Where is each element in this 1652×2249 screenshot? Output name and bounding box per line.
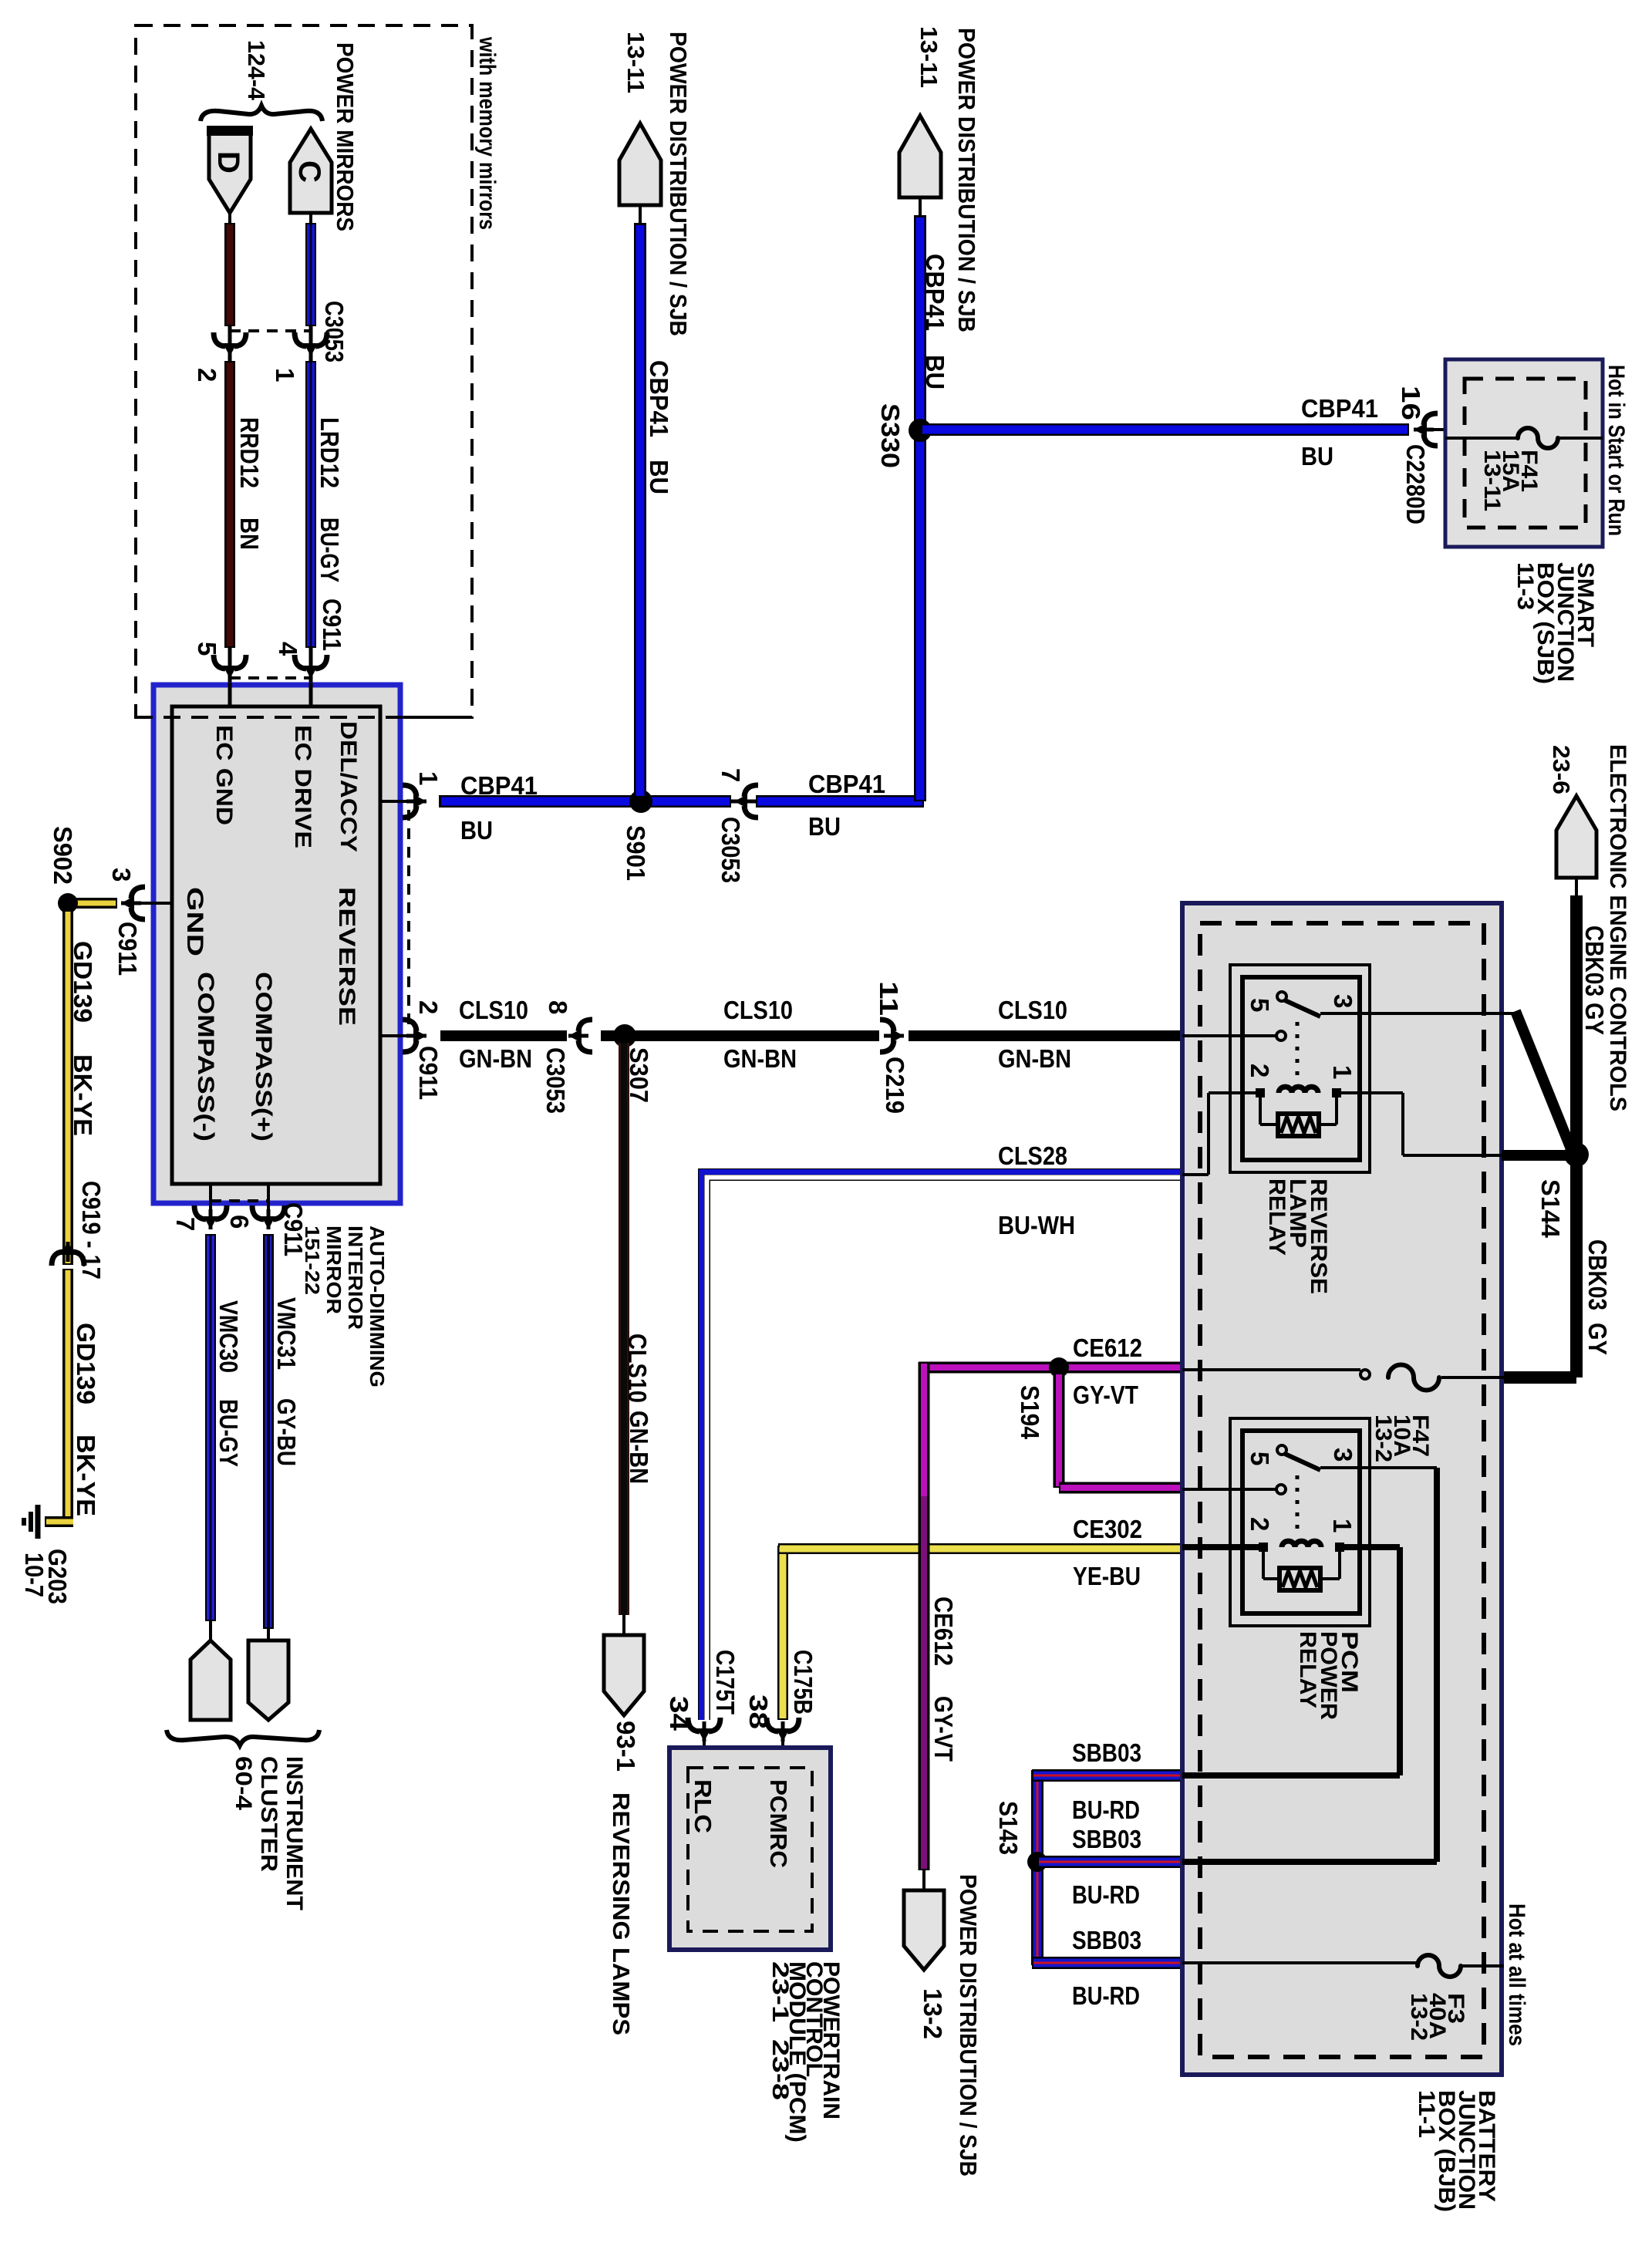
SJB inner dashed box [1465,379,1586,528]
brace 124-4 over connectors D and C [201,106,322,121]
connector: instrument cluster (pin VMC31) [248,1640,288,1720]
component box: POWERTRAIN CONTROL MODULE (PCM) [669,1748,831,1950]
svg-text:GY-VT: GY-VT [1073,1381,1138,1409]
relay 1 coil line left (CLS28 path) [1207,1093,1210,1175]
svg-text:C911: C911 [113,922,142,976]
svg-text:INSTRUMENT: INSTRUMENT [282,1756,307,1910]
svg-text:10-7: 10-7 [20,1553,49,1597]
svg-text:EC DRIVE: EC DRIVE [290,725,315,848]
svg-text:BK-YE: BK-YE [72,1435,100,1516]
svg-text:C919 - 17: C919 - 17 [77,1181,106,1280]
svg-text:BU: BU [921,355,949,389]
connector C2280D pin 16 arrow [1424,413,1438,425]
svg-text:COMPASS(-): COMPASS(-) [193,972,218,1141]
wire CLS10 GN-BN vertical (S307 down) [619,1043,629,1615]
wire: lead into PCM [703,1742,706,1769]
svg-text:BU-GY: BU-GY [315,518,344,582]
wire: lead [639,205,642,225]
svg-text:C3053: C3053 [541,1047,570,1114]
svg-text:13-11: 13-11 [1479,450,1505,511]
svg-text:4: 4 [274,642,302,656]
relay 1 pin 3 line to S144 diagonal [1320,1012,1518,1015]
relay 2 blade [1285,1454,1320,1470]
connector C911 pin 2 arrow [403,1020,416,1031]
svg-text:BK-YE: BK-YE [69,1054,97,1136]
svg-text:VMC31: VMC31 [272,1297,301,1370]
dashed option box: with memory mirrors [136,25,472,717]
relay: REVERSE LAMP RELAY outer box [1230,965,1370,1172]
relay 2 pin 5 line (CE612 branch) [1182,1488,1276,1491]
svg-text:C3053: C3053 [716,817,745,883]
wire VMC31 GY-BU vertical [263,1234,274,1629]
wire: mirror pin 1 lead [380,800,426,803]
svg-text:BU: BU [808,812,841,841]
relay 2 coil [1259,1543,1268,1552]
wire GD139 BK-YE vertical segment 2 [62,1269,73,1526]
relay 1 coil line right [1337,1091,1403,1094]
relay 2 coil right to SBB03 run1 [1340,1544,1400,1550]
svg-text:11: 11 [875,981,903,1016]
svg-text:C219: C219 [881,1057,909,1114]
wire: lead [919,197,922,217]
connector C911 pin 6 arrow [252,1205,264,1219]
connector C911 pin 1 arrow [403,785,416,797]
connector C3053 dashed link [230,329,311,332]
relay inner box [1242,977,1360,1160]
relay 1 blade [1285,1000,1320,1017]
relay 2 pin 3 line [1320,1466,1437,1469]
relay: PCM POWER RELAY outer box [1230,1418,1370,1626]
connector: POWER DISTRIBUTION / SJB (13-2) [904,1890,944,1970]
relay 1 pin 1 feed thick segment [1502,1150,1578,1161]
wire: lead from connector C [309,213,312,225]
connector C3053 pin 1 arrow [295,332,306,346]
svg-text:GY: GY [1580,1003,1609,1035]
relay 2 resistor legs [1262,1552,1265,1579]
svg-text:CBK03: CBK03 [1583,1239,1612,1310]
svg-text:GY: GY [1583,1323,1612,1355]
svg-text:CE612: CE612 [1073,1334,1142,1362]
wire CE612 GY-VT horizontal (corner to BJB) [919,1362,1182,1374]
svg-text:7: 7 [716,768,745,782]
svg-text:POWER DISTRIBUTION / SJB: POWER DISTRIBUTION / SJB [665,32,692,336]
svg-text:with memory mirrors: with memory mirrors [474,36,500,230]
svg-text:SBB03: SBB03 [1072,1926,1141,1954]
svg-text:S143: S143 [994,1801,1023,1855]
splice S144 [1564,1142,1589,1167]
wire CBP41 BU vertical (right feed through S330) [914,215,926,801]
svg-text:D: D [211,151,245,174]
svg-text:GN-BN: GN-BN [625,1411,653,1484]
wire CBK03 to fuse F47 (turn) [1504,1371,1576,1384]
component box: BATTERY JUNCTION BOX (BJB) [1182,903,1502,2075]
wire LRD12 BU-GY segment 2 (blue) [305,361,316,648]
F47 terminal circle [1360,1370,1370,1379]
svg-text:RELAY: RELAY [1295,1631,1320,1708]
dashed link C911 pins 1-2 [407,810,410,1030]
svg-text:CBP41: CBP41 [921,254,949,331]
wire: lead to connector [922,1870,925,1893]
svg-text:23-1 23-8: 23-1 23-8 [767,1961,793,2100]
svg-text:13-2: 13-2 [919,1988,947,2039]
svg-text:3: 3 [1329,994,1357,1008]
svg-text:GD139: GD139 [72,1323,100,1404]
svg-text:REVERSE: REVERSE [334,887,359,1026]
connector C175T pin 34 arrow [688,1718,700,1731]
svg-text:1: 1 [414,771,443,785]
relay 2 inner box [1242,1431,1360,1613]
svg-text:C911: C911 [279,1202,308,1256]
svg-text:BN: BN [235,518,264,550]
svg-text:POWER MIRRORS: POWER MIRRORS [332,42,359,231]
wire: mirror pin 2 lead (REVERSE) [380,1034,426,1037]
svg-text:6: 6 [225,1215,254,1229]
splice S307 [613,1024,636,1047]
svg-text:GD139: GD139 [69,941,97,1023]
svg-text:13-2: 13-2 [1370,1414,1396,1462]
relay 2 pin 3 vertical to SBB03 run2 [1434,1468,1440,1862]
svg-text:GN-BN: GN-BN [723,1044,797,1073]
relay 1 coil [1256,1088,1265,1098]
svg-text:S902: S902 [49,826,77,885]
svg-text:CE302: CE302 [1073,1515,1142,1543]
splice S902 [58,893,78,913]
wire: lead into SJB [1431,428,1448,431]
svg-text:BU-RD: BU-RD [1072,1795,1140,1824]
resistor (relay 1 suppression) [1278,1114,1319,1136]
dashed option box bottom edge over mirror box [136,716,472,719]
svg-text:REVERSING LAMPS: REVERSING LAMPS [608,1792,635,2035]
wire: mirror pin 3 GND lead [121,902,172,905]
connector C919-17 arrow [52,1252,63,1266]
svg-text:60-4: 60-4 [231,1756,256,1810]
svg-text:CE612: CE612 [929,1597,958,1666]
svg-text:CBK03: CBK03 [1580,926,1609,996]
wire: lead [1575,878,1578,898]
svg-text:RRD12: RRD12 [235,417,264,488]
svg-text:CLS10: CLS10 [998,996,1067,1024]
relay 2 dotted actuator line [1296,1475,1300,1532]
svg-text:1: 1 [271,368,299,382]
svg-text:16: 16 [1397,386,1425,420]
svg-text:MIRROR: MIRROR [322,1226,346,1314]
wire: lead to cluster connector left [209,1620,212,1643]
wire CBP41 BU horizontal (C3053 to corner) [756,795,924,808]
svg-text:S330: S330 [876,403,905,468]
connector C219 pin 11 arrow [880,1020,894,1031]
svg-text:AUTO-DIMMING: AUTO-DIMMING [366,1226,389,1388]
svg-text:13-11: 13-11 [915,26,942,88]
wire CLS10 GN-BN (C219 to BJB) [909,1030,1182,1041]
svg-text:BU: BU [460,816,493,845]
connector: POWER DISTRIBUTION / SJB (left) [619,123,661,205]
svg-text:GN-BN: GN-BN [998,1044,1071,1073]
svg-text:7: 7 [171,1217,200,1231]
wire GD139 BK-YE stub to S902 [75,898,117,909]
wire: pin 5 lead into mirror (over box) [228,683,232,708]
svg-text:124-4: 124-4 [243,40,270,101]
wire CE302 YE-BU horizontal (to BJB) [778,1543,1182,1554]
svg-text:GY-BU: GY-BU [272,1398,301,1466]
wire F47 to box edge [1441,1376,1504,1379]
connector C911 pin 4 arrow [295,655,306,669]
svg-text:YE-BU: YE-BU [1073,1562,1141,1590]
svg-text:3: 3 [1329,1448,1357,1462]
wire CE612 into F47 [1182,1368,1360,1371]
connector: ELECTRONIC ENGINE CONTROLS [1556,796,1596,878]
wire: mirror pin 7 lead [209,1184,212,1209]
svg-text:POWER DISTRIBUTION / SJB: POWER DISTRIBUTION / SJB [953,28,980,332]
svg-text:CLS10: CLS10 [623,1334,652,1403]
component box: auto-dimming interior mirror (outer) [153,685,400,1203]
connector: POWER DISTRIBUTION / SJB (right) [899,116,941,197]
svg-text:5: 5 [1246,1452,1274,1465]
svg-text:2: 2 [193,368,221,382]
svg-text:GY-VT: GY-VT [929,1696,958,1762]
wire: C3053 link leads [228,326,232,364]
wire: jog to ground [45,1516,73,1527]
svg-text:VMC30: VMC30 [214,1300,243,1373]
svg-text:C175T: C175T [711,1650,740,1715]
wire CLS10 GN-BN (mirror to C3053) [440,1030,567,1041]
wire: mirror pin 6 lead [267,1184,270,1209]
wire CBP41 BU horizontal to SJB [920,423,1409,436]
svg-text:5: 5 [193,642,221,656]
svg-text:Hot at all times: Hot at all times [1504,1903,1529,2046]
svg-text:Hot in Start or Run: Hot in Start or Run [1603,365,1629,536]
svg-text:3: 3 [107,868,136,882]
svg-text:BU-GY: BU-GY [214,1399,243,1467]
wire SBB03 BU-RD run 1 [1032,1769,1182,1782]
connector: REVERSING LAMPS [604,1635,644,1715]
brace instrument cluster [167,1730,319,1745]
svg-text:93-1: 93-1 [612,1721,640,1772]
svg-text:DEL/ACCY: DEL/ACCY [335,721,361,852]
wire SBB03 BU-RD run 2 [1037,1856,1182,1868]
wire: lead to cluster connector right [267,1624,270,1643]
fuse F41 supply line [1445,437,1518,440]
svg-text:S194: S194 [1016,1385,1044,1440]
fuse F47 10A [1388,1365,1439,1391]
svg-text:C175B: C175B [789,1650,818,1715]
wire CE612 GY-VT vertical (to 13-2 connector) [919,1362,930,1870]
svg-text:S901: S901 [622,825,650,881]
svg-text:C: C [292,160,326,183]
connector C3053 pin 2 arrow [214,332,225,346]
svg-text:BU: BU [1301,442,1333,470]
svg-text:SBB03: SBB03 [1072,1825,1141,1853]
fuse F3 40A [1418,1955,1461,1977]
connector C911 pin 7 arrow [194,1205,206,1219]
svg-text:13-2: 13-2 [1406,1993,1431,2041]
svg-text:1: 1 [1328,1519,1357,1532]
wire CBP41 BU vertical (left feed) [634,223,646,797]
svg-text:34: 34 [665,1696,693,1731]
svg-text:2: 2 [414,1000,443,1014]
BJB inner dashed box [1200,923,1484,2057]
component box: SMART JUNCTION BOX (SJB) [1445,359,1603,547]
wire: lead into PCM [781,1742,784,1769]
svg-text:CBP41: CBP41 [460,771,538,800]
svg-text:2: 2 [1246,1064,1274,1077]
svg-text:S144: S144 [1536,1179,1565,1239]
svg-text:13-11: 13-11 [622,32,649,93]
wire F3 to box edge [1461,1964,1504,1967]
svg-text:1: 1 [1328,1065,1357,1079]
svg-text:CLS10: CLS10 [723,996,793,1024]
relay 2 contact circle [1277,1445,1286,1455]
svg-text:CLS28: CLS28 [998,1141,1067,1170]
connector C911 pin 5 arrow [214,655,225,669]
relay 1 resistor legs [1259,1098,1262,1124]
svg-text:CBP41: CBP41 [645,360,673,437]
wire CBK03 GY vertical (to S144) [1570,895,1583,1377]
svg-text:C911: C911 [414,1046,443,1100]
wire CE302 YE-BU vertical (PCM pin 38 up) [777,1546,788,1720]
svg-text:C911: C911 [318,598,346,651]
svg-text:COMPASS(+): COMPASS(+) [251,972,276,1141]
svg-text:CBP41: CBP41 [1301,394,1378,423]
thick diagonal to relay 1 pin 3 [1515,1011,1573,1155]
dashed link C911 pins 7-6 [211,1199,268,1202]
svg-text:LRD12: LRD12 [315,417,344,488]
svg-text:11-1: 11-1 [1414,2090,1439,2138]
svg-text:RLC: RLC [689,1779,716,1833]
wire RRD12 BN segment 1 (maroon) [224,223,235,326]
splice S194 [1049,1357,1069,1377]
svg-text:C2280D: C2280D [1401,444,1430,524]
splice S330 [909,419,932,442]
svg-text:11-3: 11-3 [1512,562,1538,610]
relay 1 pin 5 contact circle [1276,1031,1286,1040]
connector C (power mirror C) [290,129,332,213]
component box: auto-dimming interior mirror (inner) [172,706,380,1184]
svg-text:5: 5 [1246,998,1274,1012]
wire: lead to reversing lamps connector [622,1615,625,1637]
svg-text:PCMRC: PCMRC [765,1779,792,1868]
splice S901 [629,790,652,813]
connector C911 dashed link (pins 5/4) [230,676,311,679]
wire RRD12 BN segment 2 (maroon) [224,361,235,648]
wire CE612 branch (to BJB relay 2 pin 5) [1059,1482,1182,1494]
PCM inner dashed box [688,1768,812,1931]
connector C3053 pin 8 arrow [578,1020,592,1031]
wire CBP41 BU horizontal (mirror to S901) [439,795,731,808]
svg-text:SBB03: SBB03 [1072,1738,1141,1767]
relay 1 contact circle (movable) [1277,992,1286,1001]
svg-text:C3053: C3053 [320,301,349,362]
svg-text:POWER DISTRIBUTION / SJB: POWER DISTRIBUTION / SJB [955,1874,982,2177]
svg-text:GND: GND [182,887,207,956]
relay 1 dotted actuator line [1296,1022,1300,1079]
wire SBB03 run3 into F3 [1182,1961,1418,1964]
wire CE612 branch (S194 down) [1054,1373,1065,1488]
wire CLS10 GN-BN (C3053 to S307) [601,1030,625,1041]
svg-text:GN-BN: GN-BN [459,1044,532,1073]
svg-text:38: 38 [744,1694,773,1729]
svg-text:8: 8 [544,1000,572,1014]
svg-text:BU-RD: BU-RD [1072,1981,1140,2010]
resistor (relay 2 suppression) [1279,1568,1320,1590]
connector C911 pin 3 arrow [131,887,145,899]
splice S143 [1027,1852,1047,1872]
connector D (power mirror D) [209,129,251,213]
wire LRD12 BU-GY segment 1 (blue) [305,223,316,326]
svg-text:CLS10: CLS10 [459,996,528,1024]
wire SBB03 BU-RD spine vertical [1031,1770,1043,1965]
svg-text:2: 2 [1246,1517,1274,1531]
relay 2 pin 5 contact circle [1276,1485,1286,1494]
wire SBB03 BU-RD run 3 [1032,1957,1182,1969]
wire: C911 link leads [228,648,232,708]
wire: pin 4 lead into mirror (over box) [309,683,313,708]
wire CLS10 GN-BN (S307 to C219) [625,1030,879,1041]
fuse F41 15A [1518,428,1558,448]
svg-text:EC GND: EC GND [211,725,237,825]
svg-text:BU-WH: BU-WH [998,1211,1075,1239]
connector C3053 pin 7 arrow [744,785,758,797]
svg-text:CLUSTER: CLUSTER [256,1756,282,1872]
wire: lead from connector D [228,213,231,225]
relay 2 coil feed (CE302) thick [1182,1544,1263,1550]
svg-text:INTERIOR: INTERIOR [344,1226,367,1330]
svg-text:23-6: 23-6 [1548,745,1575,794]
svg-text:BU-RD: BU-RD [1072,1880,1140,1909]
wire GD139 BK-YE vertical segment 1 [62,910,73,1265]
relay 1 pin 5 line [1182,1034,1276,1037]
connector C175B pin 38 arrow [767,1718,778,1731]
svg-text:BU: BU [645,460,673,494]
svg-text:CBP41: CBP41 [808,770,885,798]
wire CLS28 BU-WH (corner run BJB to PCM pin 34) [704,1175,1182,1720]
wire VMC30 BU-GY vertical [205,1234,216,1621]
connector: instrument cluster (pin VMC30) [190,1640,231,1720]
ground symbol G203 [35,1505,41,1539]
svg-text:RELAY: RELAY [1264,1178,1290,1256]
